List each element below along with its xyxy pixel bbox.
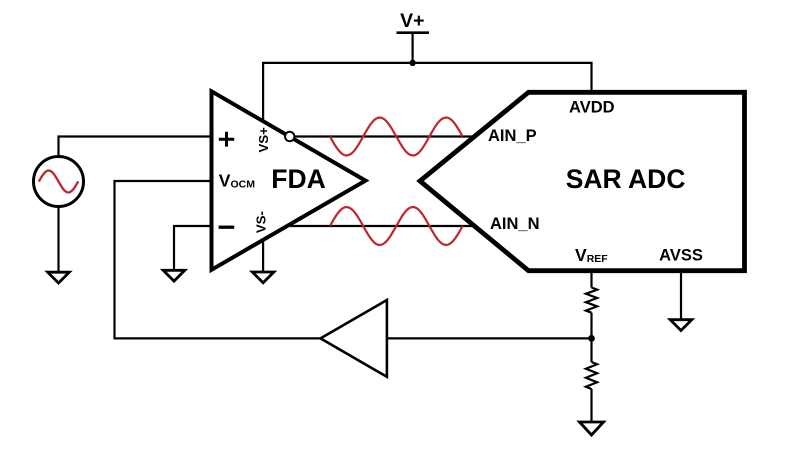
voltage source VG1 — [34, 157, 84, 207]
FDA amplifier U1 — [212, 91, 366, 269]
minus input symbol — [219, 226, 235, 229]
ground minus input — [163, 270, 185, 281]
V+ bar — [397, 31, 430, 34]
buffer op-amp U3 — [321, 300, 387, 377]
svg-text:AIN_P: AIN_P — [488, 127, 537, 145]
junction node dot — [588, 335, 595, 342]
wire AIN_N — [290, 225, 476, 227]
wire AIN_P — [293, 135, 474, 137]
svg-text:SAR ADC: SAR ADC — [566, 164, 686, 194]
svg-text:FDA: FDA — [271, 164, 325, 194]
ground AVSS — [670, 320, 692, 331]
ground VS- — [252, 272, 274, 283]
wire VREF to R1 — [590, 273, 592, 288]
wire V+ to rail — [412, 33, 414, 63]
svg-text:VS-: VS- — [253, 211, 268, 233]
wire VS- to ground — [262, 238, 264, 272]
wire R2 to ground — [590, 389, 592, 422]
svg-text:AVSS: AVSS — [659, 247, 703, 265]
svg-text:V+: V+ — [400, 10, 424, 32]
red sine AIN_P (trough first) — [330, 118, 463, 156]
wire R1 to node — [590, 313, 592, 362]
svg-text:VS+: VS+ — [256, 127, 271, 153]
ground source — [48, 272, 70, 283]
wire source bottom to ground — [57, 207, 59, 273]
top supply rail — [263, 63, 591, 123]
junction dot V+ rail — [409, 60, 415, 66]
plus input symbol — [219, 132, 234, 147]
resistor R2 — [586, 362, 597, 389]
wire minus input to ground — [174, 226, 212, 270]
wire buffer input from divider node — [387, 337, 592, 339]
output bubble on FDA edge — [285, 132, 294, 141]
sine inside source — [39, 171, 78, 193]
ground divider — [580, 422, 604, 435]
svg-text:AVDD: AVDD — [569, 98, 615, 116]
SAR ADC U2 — [420, 92, 745, 270]
wire source top to FDA + input — [59, 137, 212, 158]
wire feedback: buffer output to VOCM — [115, 181, 321, 338]
red sine AIN_N (peak first) — [330, 207, 463, 245]
wire AVSS to ground — [680, 273, 682, 320]
svg-text:AIN_N: AIN_N — [490, 215, 540, 233]
resistor R1 — [586, 288, 597, 313]
